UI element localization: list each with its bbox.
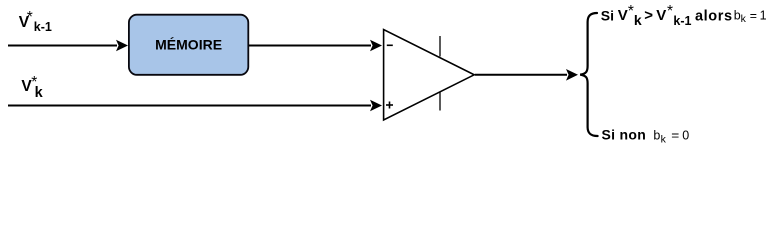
svg-text:k-1: k-1 [673, 14, 691, 28]
label output condition bk=1 [601, 3, 767, 28]
comparator U1 triangle [384, 30, 475, 121]
svg-text:V: V [618, 7, 628, 24]
wire memory to comparator minus input [249, 40, 382, 52]
comparator minus input sign [387, 44, 393, 46]
wire input V*k to comparator plus input [8, 100, 382, 112]
svg-text:k: k [661, 133, 667, 145]
svg-text:k: k [634, 12, 642, 28]
svg-text:*: * [27, 9, 33, 26]
svg-text:=: = [750, 8, 757, 23]
node V*k-1 label [19, 9, 52, 34]
brace [580, 13, 597, 136]
svg-text:MÉMOIRE: MÉMOIRE [155, 37, 222, 53]
comparator top power pin [439, 36, 441, 57]
comparator plus input sign [386, 102, 393, 109]
svg-text:k: k [741, 13, 747, 25]
svg-text:k: k [35, 85, 44, 101]
node V*k label [21, 74, 43, 101]
svg-text:1: 1 [760, 8, 767, 22]
svg-text:*: * [667, 3, 673, 20]
memory block MÉMOIRE [129, 15, 248, 75]
svg-text:k-1: k-1 [34, 20, 52, 34]
svg-text:=: = [671, 128, 679, 143]
svg-text:0: 0 [682, 128, 689, 142]
svg-text:Si non: Si non [602, 127, 647, 143]
comparator bottom power pin [439, 92, 441, 111]
wire input V*k-1 to memory [8, 40, 128, 52]
svg-text:Si: Si [601, 7, 614, 23]
svg-text:alors: alors [695, 8, 733, 24]
svg-text:b: b [653, 129, 660, 143]
svg-text:>: > [644, 7, 653, 24]
label output condition bk=0 [602, 127, 690, 146]
svg-text:V: V [656, 7, 666, 24]
wire comparator output to brace [475, 69, 578, 81]
